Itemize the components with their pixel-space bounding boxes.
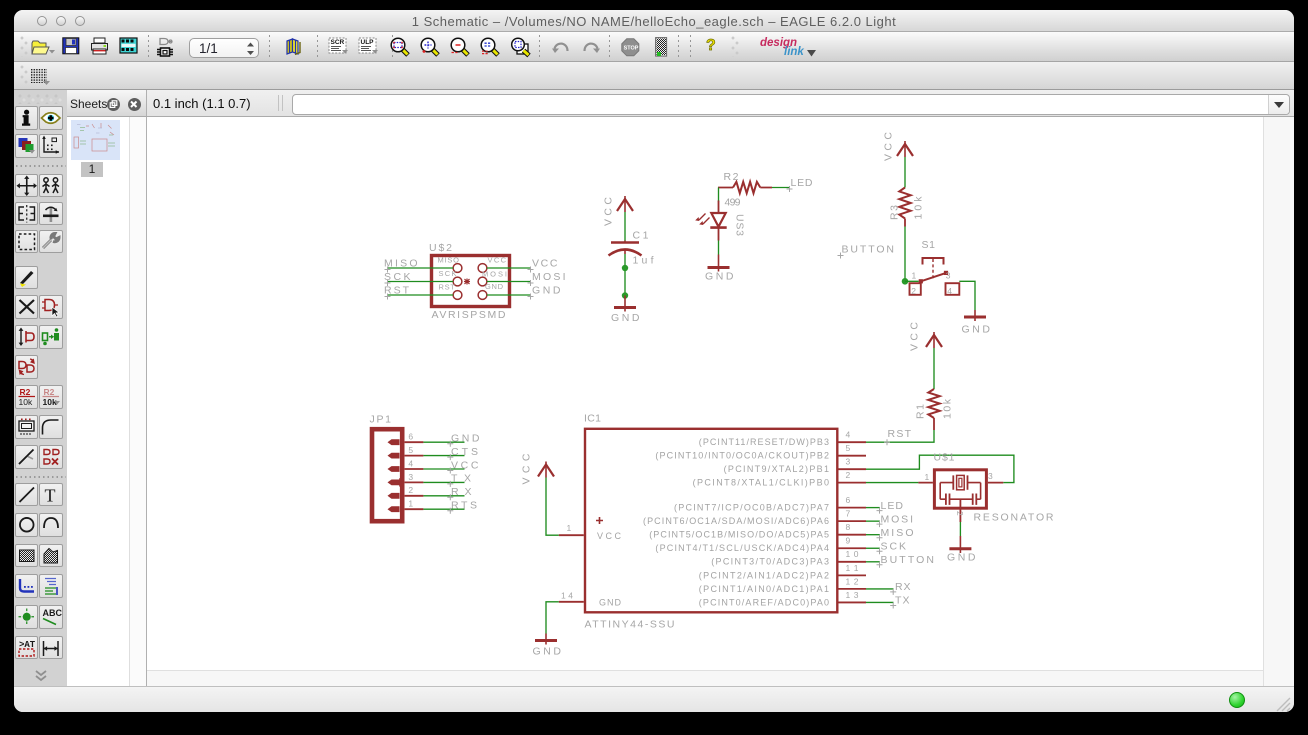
svg-text:RST: RST <box>888 428 912 440</box>
svg-text:GND: GND <box>947 552 976 564</box>
svg-text:ATTINY44-SSU: ATTINY44-SSU <box>585 619 675 631</box>
svg-text:(PCINT6/OC1A/SDA/MOSI/ADC6)PA6: (PCINT6/OC1A/SDA/MOSI/ADC6)PA6 <box>643 516 829 526</box>
wire R1 to RST net <box>866 430 934 442</box>
wire C1 to GND <box>624 254 626 296</box>
wire VCC to R1 <box>933 348 935 389</box>
LED US3 <box>695 201 727 241</box>
junction (C1 net) <box>622 265 628 271</box>
wire junction to S1 pin1 <box>905 280 919 282</box>
svg-text:13: 13 <box>846 590 859 600</box>
wire VCC to R3 <box>904 157 906 188</box>
net label TX (JP1) <box>447 473 471 487</box>
svg-text:6: 6 <box>408 432 413 442</box>
net label RX (IC1) <box>890 581 910 595</box>
svg-text:GND: GND <box>611 312 640 324</box>
net label RST <box>384 285 410 300</box>
svg-text:MISO: MISO <box>384 258 418 270</box>
wire VCC to C1 <box>624 212 626 241</box>
svg-text:4: 4 <box>947 286 952 296</box>
svg-text:RST: RST <box>439 283 456 292</box>
wire net VCC from U$2 <box>487 267 530 269</box>
svg-text:RST: RST <box>384 285 410 297</box>
svg-text:9: 9 <box>846 536 851 546</box>
svg-text:ABC: ABC <box>43 608 62 618</box>
svg-text:(PCINT9/XTAL2)PB1: (PCINT9/XTAL2)PB1 <box>724 464 829 474</box>
net label VCC (U$2 right) <box>528 258 558 273</box>
net label MISO <box>384 258 418 273</box>
net label GND (JP1) <box>447 433 480 447</box>
power VCC symbol (IC1 pin1) <box>521 453 555 484</box>
svg-text:12: 12 <box>846 576 859 586</box>
net label SCK <box>384 271 411 286</box>
svg-text:8: 8 <box>846 522 851 532</box>
net label LED (IC1) <box>877 500 904 514</box>
wire net RX IC1 <box>866 588 894 590</box>
net label SCK (IC1) <box>877 540 907 554</box>
svg-text:R3: R3 <box>889 205 901 220</box>
svg-text:1: 1 <box>408 499 413 509</box>
resonator U$1 <box>918 470 1003 522</box>
svg-text:4: 4 <box>408 458 413 468</box>
wire net XTAL2 IC1 pin3 to U$1 pin3 <box>866 455 1014 482</box>
svg-text:VCC: VCC <box>909 322 921 351</box>
net label BUTTON (S1) <box>838 244 895 259</box>
svg-text:R2: R2 <box>724 171 739 183</box>
connector U$2 AVRISPSMD <box>432 256 510 307</box>
wire net RTS JP1 <box>423 508 464 510</box>
wire net MOSI IC1 <box>866 520 880 522</box>
svg-text:(PCINT8/XTAL1/CLKI)PB0: (PCINT8/XTAL1/CLKI)PB0 <box>693 478 829 488</box>
wire US3 to GND <box>718 241 720 255</box>
svg-text:GND: GND <box>485 282 504 291</box>
wire net MISO IC1 <box>866 534 880 536</box>
wire R3 to S1 <box>904 227 906 282</box>
wire net MOSI from U$2 <box>487 281 530 283</box>
wire net BUTTON IC1 <box>866 561 880 563</box>
svg-text:ULP: ULP <box>361 39 375 46</box>
svg-text:MOSI: MOSI <box>482 270 507 279</box>
svg-text:LED: LED <box>791 177 813 189</box>
svg-text:MISO: MISO <box>438 256 460 265</box>
IC IC1 ATTINY44-SSU body <box>559 429 866 613</box>
wire VCC to IC1 pin1 <box>546 478 559 536</box>
svg-text:3: 3 <box>846 457 851 467</box>
svg-text:GND: GND <box>599 597 622 607</box>
junction (C1 net lower) <box>622 292 628 298</box>
net label MOSI (U$2 right) <box>528 271 566 286</box>
net label BUTTON (IC1) <box>877 554 935 568</box>
svg-text:5: 5 <box>408 445 413 455</box>
svg-text:STOP: STOP <box>624 46 639 52</box>
svg-text:CTS: CTS <box>451 446 478 458</box>
wire net RST to U$2 <box>388 294 453 296</box>
svg-text:US3: US3 <box>734 214 746 236</box>
svg-text:MISO: MISO <box>881 527 914 539</box>
net label LED (R2) <box>787 177 813 192</box>
svg-text:TX: TX <box>895 595 910 607</box>
resistor R2 <box>718 182 772 193</box>
wire net MISO to U$2 <box>388 267 453 269</box>
svg-text:BUTTON: BUTTON <box>881 554 935 566</box>
svg-text:GND: GND <box>533 646 562 658</box>
svg-text:R2: R2 <box>44 387 55 397</box>
wire net VCC JP1 <box>423 468 464 470</box>
svg-text:(PCINT5/OC1B/MISO/DO/ADC5)PA5: (PCINT5/OC1B/MISO/DO/ADC5)PA5 <box>649 530 829 540</box>
svg-text:11: 11 <box>846 563 859 573</box>
svg-text:GND: GND <box>532 285 561 297</box>
resistor R1 <box>928 389 939 430</box>
ground GND symbol (S1) <box>962 310 991 336</box>
svg-text:14: 14 <box>561 590 573 600</box>
svg-text:VCC: VCC <box>521 453 533 484</box>
svg-text:SCK: SCK <box>881 540 907 552</box>
net label RST (R1) <box>884 428 912 445</box>
svg-text:10k: 10k <box>942 398 954 419</box>
svg-text:VCC: VCC <box>532 258 558 270</box>
svg-text:GND: GND <box>962 324 991 336</box>
svg-text:499: 499 <box>725 197 741 209</box>
svg-text:GND: GND <box>705 271 734 283</box>
capacitor C1 (polarized) <box>609 241 642 256</box>
power VCC symbol (C1) <box>603 196 634 226</box>
wire R2 to LED US3 <box>718 188 720 202</box>
svg-text:RESONATOR: RESONATOR <box>974 512 1054 524</box>
svg-text:2: 2 <box>911 286 916 296</box>
svg-text:2: 2 <box>408 485 413 495</box>
net label MISO (IC1) <box>877 527 914 541</box>
net label RX (JP1) <box>447 486 471 500</box>
svg-text:U$2: U$2 <box>429 242 452 254</box>
connector JP1 <box>372 429 423 521</box>
wire IC1 pin14 to GND <box>546 602 559 634</box>
svg-text:S1: S1 <box>922 239 936 251</box>
svg-text:VCC: VCC <box>488 256 507 265</box>
svg-text:LED: LED <box>881 500 904 512</box>
svg-text:(PCINT3/T0/ADC3)PA3: (PCINT3/T0/ADC3)PA3 <box>711 557 829 567</box>
svg-text:(PCINT10/INT0/OC0A/CKOUT)PB2: (PCINT10/INT0/OC0A/CKOUT)PB2 <box>655 451 829 461</box>
ground GND symbol (IC1) <box>533 634 562 658</box>
svg-text:(PCINT11/RESET/DW)PB3: (PCINT11/RESET/DW)PB3 <box>699 437 829 447</box>
wire net TX IC1 <box>866 601 894 603</box>
net label VCC (JP1) <box>447 459 479 473</box>
svg-text:IC1: IC1 <box>584 413 601 425</box>
svg-text:MOSI: MOSI <box>881 513 914 525</box>
wire net LED IC1 <box>866 507 880 509</box>
svg-text:(PCINT4/T1/SCL/USCK/ADC4)PA4: (PCINT4/T1/SCL/USCK/ADC4)PA4 <box>655 543 829 553</box>
wire net RX JP1 <box>423 495 464 497</box>
wire net GND JP1 <box>423 441 464 443</box>
svg-text:3: 3 <box>988 471 993 481</box>
ground GND symbol (C1) <box>611 296 640 325</box>
svg-text:1uf: 1uf <box>633 255 654 267</box>
wire net TX JP1 <box>423 481 464 483</box>
svg-text:(PCINT0/AREF/ADC0)PA0: (PCINT0/AREF/ADC0)PA0 <box>699 597 829 607</box>
svg-text:1: 1 <box>925 472 930 482</box>
svg-text:7: 7 <box>846 509 851 519</box>
svg-text:SCR: SCR <box>331 39 345 46</box>
svg-text:3: 3 <box>946 271 951 281</box>
svg-text:SCK: SCK <box>384 271 411 283</box>
svg-text:1: 1 <box>567 523 572 533</box>
svg-text:(PCINT7/ICP/OC0B/ADC7)PA7: (PCINT7/ICP/OC0B/ADC7)PA7 <box>674 503 829 513</box>
wire net CTS JP1 <box>423 455 464 457</box>
power VCC symbol (R1) <box>909 322 943 351</box>
svg-text:4: 4 <box>846 430 851 440</box>
power VCC symbol (R3) <box>883 132 914 161</box>
ground GND symbol (US3) <box>705 255 734 283</box>
svg-text:10k: 10k <box>913 196 925 220</box>
switch S1 <box>910 258 960 295</box>
svg-text:BUTTON: BUTTON <box>842 244 895 256</box>
svg-text:JP1: JP1 <box>370 414 392 426</box>
svg-text:R2: R2 <box>19 387 30 397</box>
svg-text:AVRISPSMD: AVRISPSMD <box>432 309 506 321</box>
wire R2 to net label LED <box>772 187 790 189</box>
wire net SCK to U$2 <box>388 281 453 283</box>
junction BUTTON net <box>902 278 909 285</box>
svg-text:3: 3 <box>408 472 413 482</box>
net label RTS (JP1) <box>447 500 477 514</box>
net label TX (IC1) <box>890 595 909 609</box>
JP1 pin numbers <box>408 432 413 509</box>
ground GND symbol (U$1) <box>947 536 976 564</box>
svg-text:5: 5 <box>846 443 851 453</box>
net label GND (U$2 right) <box>528 285 561 300</box>
svg-text:(PCINT2/AIN1/ADC2)PA2: (PCINT2/AIN1/ADC2)PA2 <box>699 570 829 580</box>
svg-text:2: 2 <box>955 511 965 516</box>
IC1 pin numbers right side <box>846 430 859 600</box>
svg-text:1: 1 <box>912 271 917 281</box>
svg-text:6: 6 <box>846 495 851 505</box>
net label MOSI (IC1) <box>877 513 914 527</box>
svg-text:SCK: SCK <box>439 269 457 278</box>
svg-text:C1: C1 <box>633 230 649 242</box>
svg-text:RTS: RTS <box>451 500 477 512</box>
wire net GND from U$2 <box>487 294 530 296</box>
wire net SCK IC1 <box>866 547 880 549</box>
svg-text:VCC: VCC <box>883 132 895 161</box>
svg-text:(PCINT1/AIN0/ADC1)PA1: (PCINT1/AIN0/ADC1)PA1 <box>699 584 829 594</box>
svg-text:VCC: VCC <box>451 459 479 471</box>
net label CTS (JP1) <box>447 446 478 460</box>
svg-text:VCC: VCC <box>603 197 615 226</box>
svg-text:VCC: VCC <box>597 531 622 541</box>
wire net XTAL1 IC1 pin2 to U$1 pin1 <box>866 482 918 484</box>
wire U$1 pin2 to GND <box>959 522 961 536</box>
svg-text:10k: 10k <box>18 397 32 407</box>
svg-text:T: T <box>45 485 56 505</box>
svg-text:2: 2 <box>846 470 851 480</box>
svg-text:10k: 10k <box>43 397 57 407</box>
resistor R3 <box>899 188 910 227</box>
svg-text:RX: RX <box>895 581 911 593</box>
svg-text:10: 10 <box>846 549 859 559</box>
svg-text:U$1: U$1 <box>934 452 955 464</box>
wire S1 pin4 to GND <box>959 281 975 310</box>
svg-text:R1: R1 <box>915 404 927 419</box>
svg-text:MOSI: MOSI <box>532 271 566 283</box>
svg-text:GND: GND <box>451 433 480 445</box>
